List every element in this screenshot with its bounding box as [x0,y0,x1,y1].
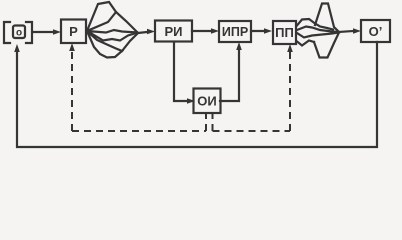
svg-text:ОИ: ОИ [197,94,216,109]
right fan lower spike [314,34,339,58]
svg-text:ИПР: ИПР [222,25,248,39]
block O' [361,20,390,42]
right fan upper bumpy line [297,19,333,30]
block R [61,20,86,44]
svg-text:О’: О’ [369,24,383,39]
svg-text:ПП: ПП [275,25,294,40]
right fan lower bumpy line [297,41,314,46]
wire IPR to PP [251,30,265,32]
block OI [194,89,221,114]
svg-text:о: о [16,28,22,39]
arrowhead dashed into PP [287,44,293,52]
dashed wire OI left stub [205,112,207,131]
left fan upper petal [87,2,116,31]
node O: right bracket [26,22,32,43]
dashed wire bottom left horizontal [72,130,206,132]
arrowhead RI to IPR [211,28,219,34]
svg-text:Р: Р [69,24,78,39]
left fan middle petal [87,30,138,41]
arrowhead fan to O' [353,28,361,34]
wire RI down to OI [174,42,187,101]
wire right fan to O' [339,31,353,32]
arrowhead dashed into R [69,43,75,51]
arrowhead O to R [53,29,61,35]
left fan lower petal [87,31,122,58]
arrowhead fan to RI [147,29,155,35]
left fan lower connector [122,33,138,51]
wire OI up to IPR [220,50,239,101]
dashed wire loop left riser to R [71,51,73,131]
arrowhead OI to IPR [236,42,242,50]
dashed wire OI right stub [212,112,214,131]
block IPR [219,21,251,42]
dashed wire bottom right horizontal [213,130,291,132]
node O: small box [13,26,25,39]
node O: left bracket [4,22,10,43]
dashed wire right riser to PP [289,51,291,131]
arrowhead loop into O [14,44,20,52]
block PP [273,21,296,44]
wire fan to RI [138,32,147,33]
right fan middle lens lower [297,33,339,38]
block RI [155,21,192,42]
right fan middle lens upper [297,27,339,33]
arrowhead RI to OI [187,98,195,104]
wire O to R [34,31,54,33]
left fan upper connector [116,12,137,32]
arrowhead IPR to PP [264,28,272,34]
svg-text:РИ: РИ [164,24,182,39]
wire RI to IPR [192,30,211,32]
right fan upper spike [315,4,339,33]
wire O' down to loop [17,42,377,147]
